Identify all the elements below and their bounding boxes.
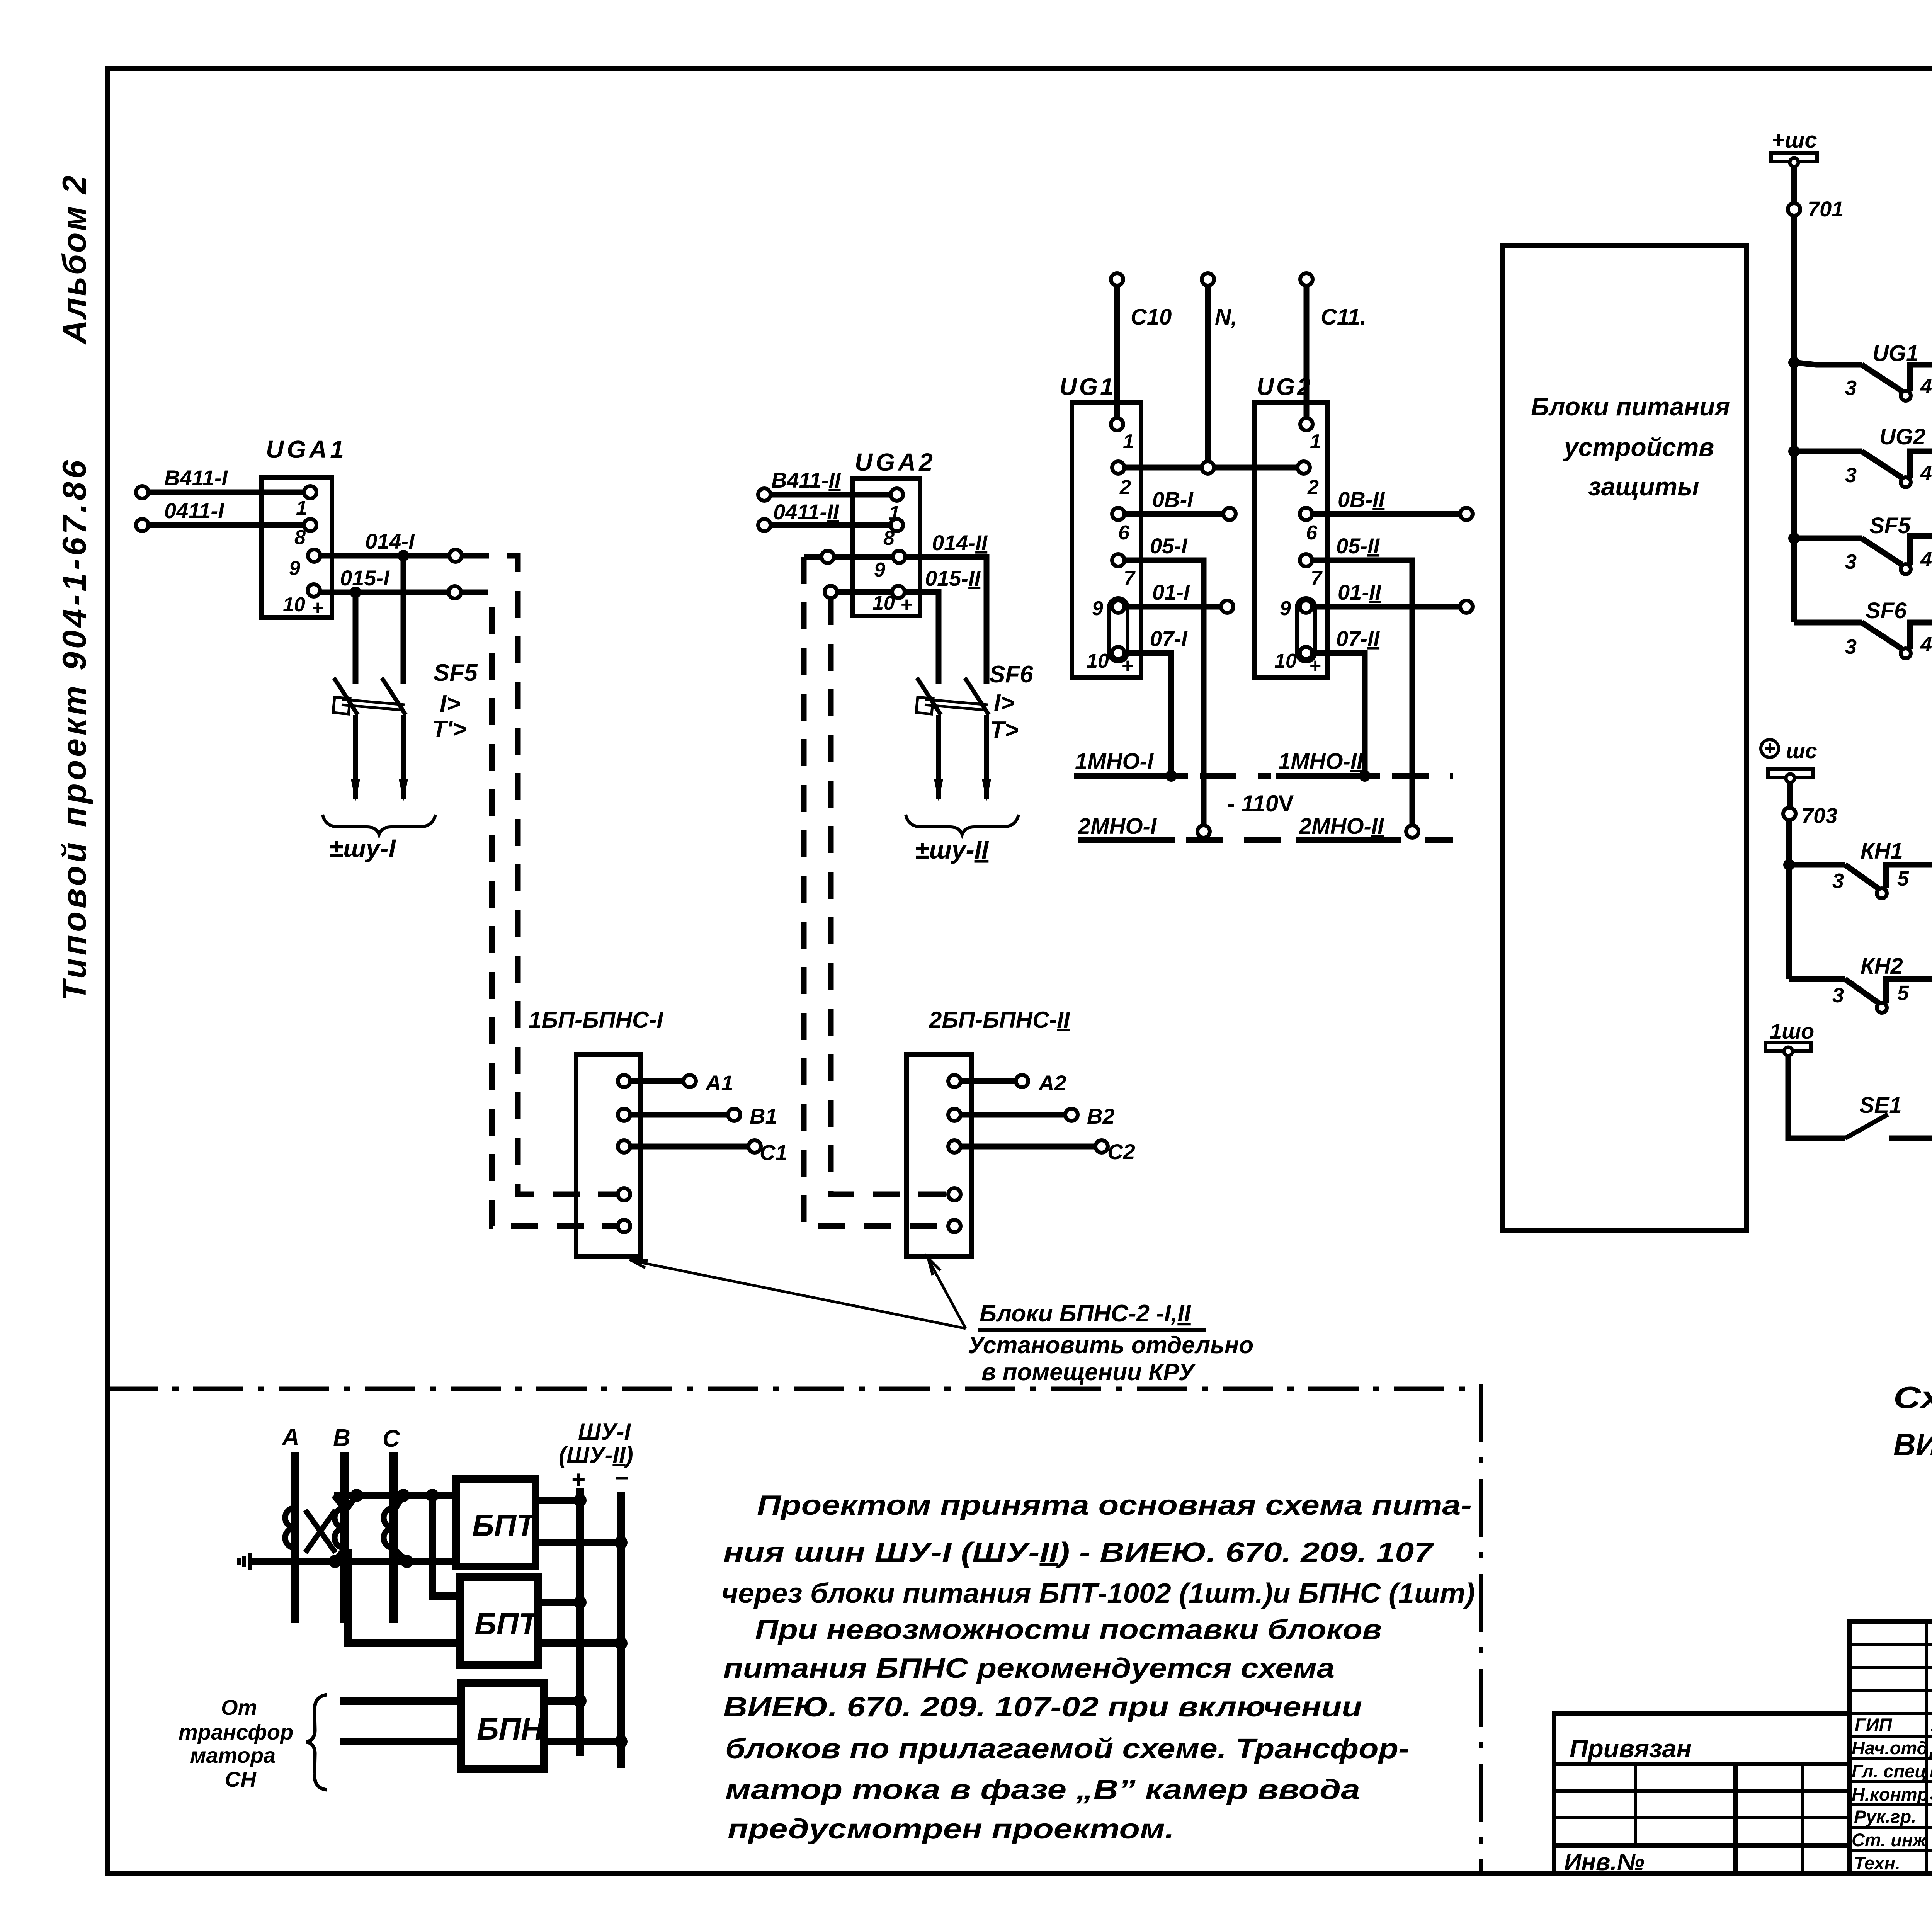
dashed cable run 015-II down to 2BP-BPNS-II pin 4 (831, 598, 947, 1194)
wire B2 (948, 1104, 1115, 1128)
svg-text:0В-II: 0В-II (1338, 487, 1385, 512)
note text project description (721, 1490, 1475, 1845)
power unit 2БП-БПНС-II (906, 1007, 1070, 1256)
svg-text:3: 3 (1832, 984, 1844, 1007)
phase bus A (281, 1424, 299, 1623)
connector UG2 (1255, 374, 1327, 677)
svg-text:5: 5 (1897, 981, 1909, 1005)
leader line from 1BP-BPNS-I to note (630, 1260, 966, 1328)
block БПТ lower (460, 1577, 540, 1665)
svg-text:Типовой проект 904-1-67.86: Типовой проект 904-1-67.86 (56, 457, 93, 1001)
svg-text:При невозможности поставки бло: При невозможности поставки блоков (755, 1614, 1382, 1645)
svg-text:9: 9 (874, 559, 885, 581)
svg-text:С11.: С11. (1321, 304, 1366, 330)
junction шс/KH1 (1783, 859, 1795, 871)
wire B411-I to UGA1 pin 1 (136, 466, 316, 498)
svg-text:07-II: 07-II (1336, 626, 1380, 651)
svg-text:трансфор: трансфор (179, 1720, 293, 1744)
svg-text:Гл. спец: Гл. спец (1852, 1761, 1927, 1781)
phase bus C (383, 1425, 400, 1623)
svg-text:+шс: +шс (1772, 128, 1817, 153)
svg-text:1: 1 (1123, 430, 1134, 453)
label От трансформатора СН (179, 1695, 327, 1791)
svg-text:014-I: 014-I (365, 529, 415, 553)
svg-text:UG2: UG2 (1879, 424, 1925, 449)
svg-text:±шу-I: ±шу-I (329, 834, 396, 862)
circuit breaker SF6 (916, 661, 1033, 801)
svg-text:ВИЕЮ. 670. 209. 107-02 при вкл: ВИЕЮ. 670. 209. 107-02 при включении (723, 1692, 1362, 1723)
svg-text:4: 4 (1920, 633, 1932, 656)
wire 01-II from UG2 pin 9 (1312, 580, 1473, 613)
current transformer phase B (335, 1508, 345, 1548)
label ШУ-I (ШУ-II) (559, 1419, 633, 1493)
svg-text:Золотарева: Золотарева (1930, 1783, 1932, 1805)
svg-text:Блоки БПНС-2 -I,II: Блоки БПНС-2 -I,II (980, 1300, 1192, 1327)
connector UG1 (1060, 374, 1141, 677)
svg-text:01-I: 01-I (1152, 580, 1190, 604)
svg-text:блоков по прилагаемой схеме. Т: блоков по прилагаемой схеме. Трансфор- (725, 1733, 1409, 1764)
svg-text:±шу-II: ±шу-II (915, 835, 989, 864)
svg-text:1: 1 (1310, 430, 1321, 453)
current transformer phase C (384, 1508, 394, 1548)
svg-text:БПТ: БПТ (474, 1607, 540, 1641)
svg-text:- 110V: - 110V (1227, 791, 1294, 816)
svg-text:матор тока в фазе „В” камер вв: матор тока в фазе „В” камер ввода (725, 1774, 1360, 1805)
note Схема выполнена (1893, 1380, 1932, 1462)
wire БПТ1 outputs (536, 1500, 621, 1543)
wire БПН outputs (544, 1701, 621, 1742)
margin label Типовой проект 904-1-67.86 (56, 457, 93, 1001)
wire 0411-II to UGA2 pin 8 (758, 500, 903, 531)
svg-text:Установить отдельно: Установить отдельно (968, 1332, 1253, 1359)
svg-text:СН: СН (225, 1767, 257, 1791)
svg-text:7: 7 (1124, 567, 1136, 590)
wire 07-I from UG1 pin 10 (1124, 626, 1188, 776)
contact KH2 3-5 (1789, 954, 1932, 1013)
svg-text:SF5: SF5 (1869, 513, 1911, 538)
svg-text:ния шин ШУ-I (ШУ-II) - ВИЕЮ. 6: ния шин ШУ-I (ШУ-II) - ВИЕЮ. 670. 209. 1… (723, 1537, 1434, 1568)
svg-text:2МНО-II: 2МНО-II (1299, 814, 1384, 839)
svg-text:I>: I> (440, 690, 460, 717)
connector UGA2 (852, 448, 936, 616)
net 1МНО-II (1276, 749, 1453, 776)
svg-text:В411-II: В411-II (771, 468, 841, 492)
bus 1шо (1765, 1019, 1845, 1138)
svg-text:UGA2: UGA2 (855, 448, 936, 476)
svg-text:ГИП: ГИП (1855, 1714, 1893, 1735)
wire phase B CT to БПТ2 (348, 1495, 460, 1643)
svg-text:4: 4 (1920, 375, 1932, 398)
dashed cable run 014-II down to 2BP-BPNS-II pin 5 (804, 557, 947, 1226)
svg-text:9: 9 (1092, 597, 1103, 620)
junction 07-I on 1МНО-I (1165, 770, 1177, 782)
svg-text:С10: С10 (1131, 304, 1172, 330)
bus ШУ plus (576, 1488, 584, 1756)
svg-text:SF6: SF6 (989, 661, 1033, 688)
svg-text:БПТ: БПТ (472, 1508, 537, 1543)
svg-text:014-II: 014-II (932, 531, 988, 555)
wire +шс vertical with node 701 (1788, 167, 1844, 622)
svg-text:3: 3 (1832, 869, 1844, 893)
svg-text:Рук.гр.: Рук.гр. (1854, 1806, 1916, 1827)
junction bus B (350, 1489, 363, 1502)
svg-text:2БП-БПНС-II: 2БП-БПНС-II (929, 1007, 1070, 1033)
svg-text:N‚: N‚ (1215, 304, 1237, 330)
svg-text:В1: В1 (750, 1104, 777, 1128)
svg-text:701: 701 (1808, 197, 1844, 221)
junction +шс/SF5 (1788, 532, 1800, 544)
svg-text:015-II: 015-II (925, 566, 981, 590)
wire 05-II from UG2 pin 7 (1312, 534, 1418, 838)
block БПТ upper (456, 1479, 537, 1566)
svg-text:0411-II: 0411-II (773, 500, 840, 524)
junction +шс/UG1 (1788, 357, 1800, 368)
wire 014-II from UGA2 pin 9 (804, 531, 988, 684)
svg-text:А2: А2 (1038, 1071, 1066, 1095)
current transformer phase A (285, 1508, 295, 1548)
svg-text:2: 2 (1119, 476, 1131, 498)
net 1МНО-I (1074, 749, 1271, 776)
dashed cable run 015-I down to 1BP-BPNS-I pin 5 (461, 592, 617, 1226)
svg-text:ВИЕЮ. 670.209.107.ЭЗ.: ВИЕЮ. 670.209.107.ЭЗ. (1893, 1427, 1932, 1462)
svg-text:4: 4 (1920, 548, 1932, 571)
svg-text:БПН: БПН (477, 1712, 544, 1746)
block БПН (461, 1683, 544, 1769)
switch SE1 (1845, 1093, 1932, 1138)
wire 01-I from UG1 pin 9 (1124, 580, 1233, 613)
svg-text:Нач.отд: Нач.отд (1852, 1738, 1928, 1758)
node ±ШУ-II (906, 815, 1019, 864)
svg-text:–: – (615, 1463, 628, 1490)
pin 4 of 2BP-BPNS-II (948, 1188, 961, 1201)
svg-text:Нашельская: Нашельская (1930, 1760, 1932, 1782)
junction on 015-I (350, 587, 361, 598)
svg-text:КН1: КН1 (1861, 838, 1903, 864)
svg-text:Блоки питания: Блоки питания (1531, 392, 1730, 421)
leader line from 2BP-BPNS-II to note (928, 1258, 966, 1328)
svg-text:9: 9 (1280, 597, 1291, 620)
svg-text:3: 3 (1845, 550, 1857, 573)
junction ground C (400, 1555, 413, 1568)
svg-text:T>: T> (990, 717, 1019, 743)
svg-text:UG2: UG2 (1257, 374, 1313, 400)
terminal C10 (1111, 273, 1172, 418)
wire 07-II from UG2 pin 10 (1312, 626, 1380, 776)
svg-text:05-II: 05-II (1336, 534, 1380, 558)
svg-text:Схема выполнена на основани: Схема выполнена на основании чертежа (1893, 1380, 1932, 1415)
junction БПТ2- (614, 1637, 628, 1650)
ground (239, 1549, 456, 1570)
title block names table (1849, 1622, 1932, 1873)
contact SF5 3-4 (1794, 513, 1932, 617)
wire 0B-I from UG1 pin 6 (1124, 487, 1236, 520)
wire 0B-II from UG2 pin 6 (1312, 487, 1473, 520)
svg-text:Привязан: Привязан (1570, 1734, 1692, 1763)
margin label Альбом 2 (56, 174, 93, 345)
svg-text:SE1: SE1 (1859, 1093, 1902, 1118)
wire шс vertical with node 703 (1783, 782, 1837, 979)
terminal C11 (1300, 273, 1366, 418)
svg-text:2: 2 (1307, 476, 1319, 498)
phase bus B (333, 1425, 350, 1623)
svg-text:в помещении КРУ: в помещении КРУ (981, 1359, 1196, 1386)
junction БПТ2+ (573, 1596, 587, 1609)
svg-text:01-II: 01-II (1338, 580, 1381, 604)
title block attachment table (1554, 1713, 1849, 1876)
contact KH1 3-5 (1789, 838, 1932, 973)
svg-text:А1: А1 (705, 1071, 733, 1095)
svg-text:матора: матора (190, 1743, 276, 1767)
svg-text:1шо: 1шо (1770, 1019, 1814, 1043)
svg-text:SF5: SF5 (434, 660, 478, 686)
junction bus riser (426, 1489, 439, 1502)
junction on 014-I (398, 550, 409, 561)
svg-text:10: 10 (283, 594, 305, 616)
bus +шс left (1771, 128, 1817, 167)
bus ⊕шс (1761, 738, 1817, 782)
wire A2 (948, 1071, 1066, 1095)
svg-text:0В-I: 0В-I (1152, 487, 1194, 512)
svg-text:КН2: КН2 (1861, 954, 1903, 979)
svg-text:Инв.№: Инв.№ (1564, 1849, 1645, 1876)
svg-text:Техн.: Техн. (1854, 1853, 1900, 1873)
title block role labels (1852, 1714, 1928, 1873)
pin 4 of 1BP-BPNS-I (618, 1188, 630, 1201)
chain separator line bottom section (107, 1387, 1481, 1391)
svg-text:предусмотрен проектом.: предусмотрен проектом. (728, 1814, 1174, 1845)
svg-text:1БП-БПНС-I: 1БП-БПНС-I (529, 1007, 663, 1033)
node ±ШУ-I (323, 815, 435, 862)
box Блоки питания устройств защиты (1503, 245, 1747, 1231)
junction ground A (328, 1555, 342, 1568)
wire 0411-I to UGA1 pin 8 (136, 498, 316, 531)
wire 014-I from UGA1 pin 9 (308, 529, 462, 562)
svg-text:2МНО-I: 2МНО-I (1078, 814, 1157, 839)
svg-text:Н.контр: Н.контр (1852, 1784, 1928, 1804)
wire B411-II to UGA2 pin 1 (758, 468, 903, 501)
svg-text:3: 3 (1845, 464, 1857, 487)
label -110V (1227, 791, 1294, 816)
junction БПТ1- (614, 1536, 628, 1549)
svg-text:ШУ-I: ШУ-I (578, 1419, 631, 1445)
svg-text:6: 6 (1118, 522, 1130, 544)
junction БПТ1+ (573, 1494, 587, 1507)
svg-text:5: 5 (1897, 867, 1909, 890)
svg-text:через блоки питания БПТ-1002 (: через блоки питания БПТ-1002 (1шт.)и БПН… (721, 1578, 1475, 1609)
contact UG1 3-4 (1794, 341, 1932, 445)
svg-text:UG1: UG1 (1060, 374, 1116, 400)
wire БПН inputs from СН (340, 1701, 461, 1742)
svg-text:UGА1: UGА1 (266, 435, 347, 463)
junction БПН+ (573, 1694, 587, 1708)
svg-text:6: 6 (1306, 522, 1318, 544)
pin 5 of 1BP-BPNS-I (618, 1220, 630, 1232)
svg-text:С: С (383, 1425, 400, 1452)
secondary bus to БПТ (334, 1495, 456, 1509)
svg-text:Проектом принята основная схем: Проектом принята основная схема пита- (757, 1490, 1472, 1521)
wire 05-I from UG1 pin 7 (1124, 534, 1210, 838)
junction 07-II on 1МНО-II (1359, 770, 1371, 782)
connector UGA1 (261, 435, 347, 619)
contact SF6 3-4 (1794, 598, 1932, 658)
junction +шс/UG2 (1788, 446, 1800, 457)
svg-text:С2: С2 (1107, 1139, 1135, 1164)
svg-text:3: 3 (1845, 376, 1857, 400)
svg-text:703: 703 (1801, 803, 1837, 828)
junction bus C (397, 1489, 410, 1502)
svg-text:А: А (281, 1424, 299, 1451)
svg-text:07-I: 07-I (1150, 626, 1188, 651)
svg-text:0411-I: 0411-I (164, 498, 224, 523)
chain vertical right edge of note box (1479, 1384, 1483, 1873)
svg-text:015-I: 015-I (340, 566, 390, 590)
svg-text:питания БПНС рекомендуется схе: питания БПНС рекомендуется схема (723, 1653, 1335, 1684)
wire C2 (948, 1139, 1135, 1164)
power unit 1БП-БПНС-I (529, 1007, 663, 1256)
wire C1 (618, 1140, 787, 1165)
svg-text:Альбом 2: Альбом 2 (56, 174, 93, 345)
svg-text:С1: С1 (760, 1140, 787, 1165)
dashed cable run 014-I down to 1BP-BPNS-I pin 4 (462, 556, 617, 1194)
wire 015-II from UGA2 pin 10 (825, 566, 981, 684)
svg-text:3: 3 (1845, 635, 1857, 658)
svg-text:1: 1 (296, 497, 307, 519)
svg-text:1МНО-II: 1МНО-II (1278, 749, 1364, 774)
svg-text:T'>: T'> (432, 716, 466, 743)
svg-text:шс: шс (1786, 738, 1817, 763)
title block names (1929, 1714, 1932, 1874)
bus ШУ minus (617, 1492, 625, 1768)
svg-text:устройств: устройств (1563, 433, 1714, 461)
svg-text:защиты: защиты (1588, 472, 1699, 501)
svg-text:4: 4 (1920, 461, 1932, 485)
svg-text:UG1: UG1 (1872, 341, 1918, 366)
svg-text:+: + (311, 597, 323, 619)
wire A1 (618, 1071, 733, 1095)
wire UG1 pin2 to UG2 pin2 (1124, 465, 1298, 471)
svg-text:В: В (333, 1425, 350, 1451)
contact UG2 3-4 (1794, 424, 1932, 487)
svg-text:В411-I: В411-I (164, 466, 228, 490)
svg-text:Ст. инж: Ст. инж (1852, 1830, 1927, 1850)
svg-text:05-I: 05-I (1150, 534, 1188, 558)
note Блоки БПНС-2-I,II (968, 1300, 1253, 1386)
net 2МНО-II (1296, 814, 1453, 840)
net 2МНО-I (1078, 814, 1287, 840)
svg-text:От: От (221, 1695, 257, 1719)
circuit breaker SF5 (333, 556, 478, 801)
pin 5 of 2BP-BPNS-II (948, 1220, 961, 1232)
svg-text:7: 7 (1311, 567, 1323, 590)
svg-text:В2: В2 (1087, 1104, 1115, 1128)
wire БПТ2 outputs (538, 1602, 621, 1643)
terminal N (1202, 273, 1237, 474)
secondary cross connection (305, 1495, 345, 1553)
junction БПН- (614, 1735, 628, 1748)
wire B1 (618, 1104, 777, 1128)
svg-text:10: 10 (1274, 650, 1297, 672)
wire 015-I from UGA1 pin 10 (308, 566, 461, 599)
svg-text:10: 10 (1087, 650, 1109, 672)
svg-text:1МНО-I: 1МНО-I (1075, 749, 1154, 774)
svg-text:I>: I> (994, 690, 1014, 716)
svg-text:9: 9 (289, 557, 300, 580)
svg-text:SF6: SF6 (1866, 598, 1907, 623)
